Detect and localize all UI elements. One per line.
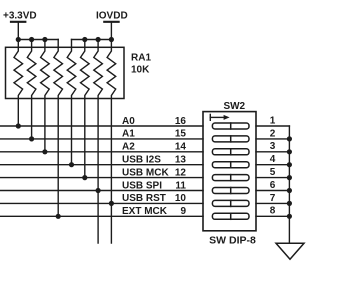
svg-text:12: 12	[175, 167, 187, 178]
svg-text:USB SPI: USB SPI	[122, 180, 162, 191]
svg-text:7: 7	[270, 193, 276, 204]
svg-text:3: 3	[270, 141, 276, 152]
svg-text:A1: A1	[122, 129, 135, 140]
svg-text:USB MCK: USB MCK	[122, 167, 169, 178]
svg-text:14: 14	[175, 142, 187, 153]
svg-text:16: 16	[175, 116, 187, 127]
svg-text:10: 10	[175, 193, 187, 204]
svg-text:1: 1	[270, 115, 276, 126]
svg-text:A2: A2	[122, 142, 135, 153]
svg-text:USB RST: USB RST	[122, 193, 166, 204]
svg-text:6: 6	[270, 180, 276, 191]
svg-text:SW DIP-8: SW DIP-8	[209, 235, 256, 247]
svg-text:EXT MCK: EXT MCK	[122, 206, 168, 217]
svg-text:USB I2S: USB I2S	[122, 155, 161, 166]
svg-text:A0: A0	[122, 116, 135, 127]
svg-text:5: 5	[270, 167, 276, 178]
svg-text:9: 9	[180, 206, 186, 217]
svg-text:4: 4	[270, 154, 276, 165]
svg-text:11: 11	[175, 180, 186, 191]
svg-text:10K: 10K	[131, 64, 150, 75]
svg-text:2: 2	[270, 128, 276, 139]
svg-text:13: 13	[175, 155, 187, 166]
svg-text:SW2: SW2	[223, 101, 245, 112]
svg-text:+3.3VD: +3.3VD	[3, 10, 37, 21]
svg-text:RA1: RA1	[131, 53, 151, 64]
svg-text:8: 8	[270, 206, 276, 217]
svg-text:IOVDD: IOVDD	[96, 10, 128, 21]
svg-text:15: 15	[175, 129, 187, 140]
